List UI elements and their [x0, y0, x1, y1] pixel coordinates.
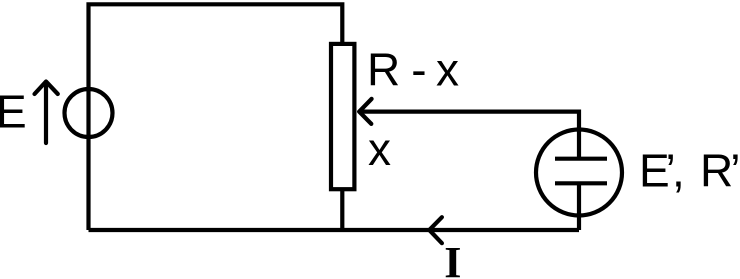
arrow: emf direction of E (up) — [35, 82, 58, 144]
wire: cell bottom lead — [577, 183, 581, 230]
wire: potentiometer bottom lead — [340, 189, 344, 230]
svg-text:R-x: R-x — [367, 44, 459, 96]
resistor R (potentiometer body) — [331, 44, 354, 189]
wire: left branch (left vertical, top horizontal, right vertical down to potentiometer) — [89, 4, 343, 230]
svg-text:E: E — [0, 85, 27, 137]
cell plate lower — [555, 181, 607, 185]
wire: bottom horizontal — [89, 228, 580, 232]
source E (circle) — [65, 89, 113, 137]
svg-text:E’,R’: E’,R’ — [639, 145, 740, 197]
wire: wiper tap to cell (horizontal then down) — [359, 112, 579, 159]
arrow: wiper arrowhead pointing left at resistor — [359, 99, 371, 124]
cell E' (circle) — [536, 130, 622, 216]
arrow: current I arrowhead pointing left on bottom wire — [429, 217, 442, 243]
svg-text:x: x — [368, 123, 391, 175]
cell plate upper — [555, 157, 607, 161]
svg-text:I: I — [444, 238, 461, 279]
